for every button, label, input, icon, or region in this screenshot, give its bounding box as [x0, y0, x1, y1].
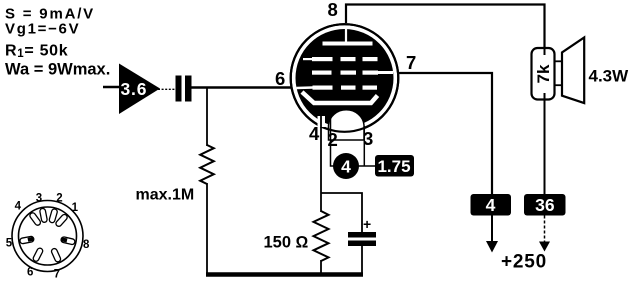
wire cathode branch tee	[321, 193, 362, 233]
value box 4 (screen current)	[471, 194, 512, 216]
svg-text:1.75: 1.75	[377, 157, 410, 176]
svg-text:150 Ω: 150 Ω	[264, 234, 309, 252]
wire transformer to speaker ticks	[555, 60, 563, 62]
svg-text:5: 5	[6, 238, 13, 250]
svg-text:2: 2	[56, 193, 62, 205]
wire grid (capacitor to tube pin 6)	[192, 86, 293, 88]
socket outer circle	[12, 201, 83, 272]
wire transformer to +250	[544, 93, 546, 194]
socket inner circle	[19, 207, 77, 265]
tube cathode	[302, 92, 378, 103]
svg-text:4: 4	[15, 201, 22, 213]
svg-text:4: 4	[341, 156, 351, 176]
wire node to 1.75 box	[358, 165, 375, 167]
tube envelope outline overlay	[291, 24, 399, 132]
svg-text:7: 7	[406, 52, 416, 73]
tube anode lead (pin 8 internal)	[345, 29, 347, 43]
svg-text:36: 36	[535, 195, 555, 215]
wire 150 ohm stubs	[320, 194, 322, 212]
svg-text:4: 4	[309, 123, 320, 144]
svg-text:7k: 7k	[534, 64, 553, 83]
svg-text:Wa = 9Wmax.: Wa = 9Wmax.	[5, 61, 110, 79]
wire box 4 to arrow	[491, 216, 493, 243]
tube anode plate	[323, 42, 373, 46]
svg-text:Vg1=−6V: Vg1=−6V	[5, 21, 80, 38]
tube grid row 3 (control, to pin 6)	[297, 86, 378, 90]
svg-text:3: 3	[36, 193, 42, 205]
tube V1 envelope	[291, 24, 399, 132]
resistor 150 ohm	[264, 211, 329, 261]
wire stub into transformer top	[544, 48, 546, 55]
tube grid row 1	[303, 57, 378, 61]
svg-text:2: 2	[328, 129, 338, 150]
wire screen pin 7	[398, 73, 492, 194]
svg-text:6: 6	[275, 68, 285, 89]
svg-text:8: 8	[83, 239, 90, 251]
tube base arch	[329, 110, 365, 140]
svg-text:+: +	[363, 216, 371, 232]
wire box 36 to arrow	[544, 216, 546, 243]
socket pins	[19, 208, 75, 263]
svg-text:7: 7	[54, 269, 60, 281]
output transformer 7k	[532, 48, 555, 100]
value box 1.75	[375, 155, 414, 177]
wire arrow to capacitor	[158, 88, 176, 90]
wire pin 4 down	[320, 115, 322, 194]
wire pin 3 down	[363, 126, 365, 166]
wire pin 2 to node	[331, 112, 335, 166]
svg-text:R1= 50k: R1= 50k	[5, 43, 68, 61]
svg-text:6: 6	[27, 267, 33, 279]
wire resistor 1M to rail	[206, 183, 208, 274]
tube pin4 notch	[318, 116, 326, 127]
arrow supply right	[539, 242, 550, 252]
bottom rail	[206, 272, 363, 277]
wire grid-leak drop	[206, 88, 208, 147]
svg-text:8: 8	[328, 0, 338, 20]
svg-text:+250: +250	[501, 252, 547, 273]
node circle 4 (cathode voltage)	[333, 153, 359, 179]
svg-text:max.1M: max.1M	[136, 187, 195, 204]
capacitor C coupling	[176, 76, 192, 102]
wire anode to top rail	[346, 5, 545, 50]
wire input stub	[103, 86, 120, 88]
socket pin numbers	[6, 193, 90, 281]
arrow supply left	[486, 241, 498, 253]
value box 36 (anode current)	[524, 194, 566, 216]
input level arrow 3.6	[119, 64, 160, 115]
speaker horn	[562, 38, 584, 104]
svg-text:4.3W: 4.3W	[589, 67, 630, 86]
svg-text:3.6: 3.6	[121, 79, 148, 99]
wire capacitor to rail	[361, 246, 363, 274]
electrolytic capacitor	[348, 216, 376, 246]
svg-text:1: 1	[72, 202, 79, 214]
svg-text:4: 4	[486, 195, 496, 215]
tube grid row 2 (screen, to pin 7)	[312, 71, 393, 75]
resistor max.1M	[136, 145, 214, 204]
